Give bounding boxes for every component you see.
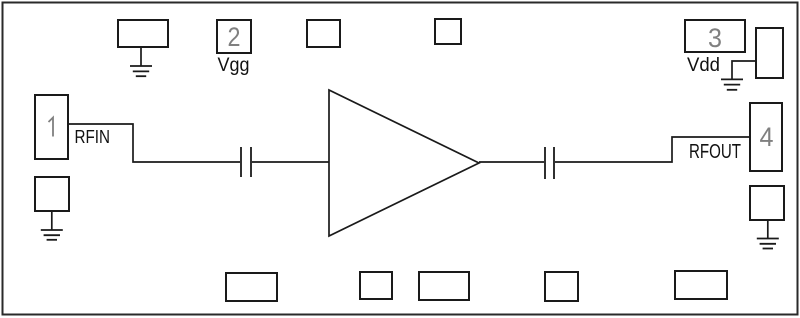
svg-text:Vgg: Vgg	[218, 55, 250, 76]
wire	[51, 211, 53, 230]
pad (bottom box 3)	[419, 272, 469, 300]
svg-text:2: 2	[228, 22, 241, 52]
wire	[767, 220, 769, 239]
pad (bottom box 2)	[360, 272, 392, 299]
pad (right grounded pad)	[750, 186, 784, 220]
pad (top-right grounded pad)	[756, 28, 783, 78]
pad (bottom box 4)	[545, 272, 578, 301]
op-amp U1 (amplifier triangle)	[329, 90, 479, 236]
pad (top box A)	[307, 20, 340, 47]
pad 4 (RFOUT pin)	[750, 103, 782, 171]
capacitor C1 (input blocking cap)	[241, 147, 251, 177]
svg-text:4: 4	[760, 122, 774, 152]
pad (top box B)	[435, 19, 461, 44]
ground	[41, 230, 63, 240]
pin number 1	[49, 118, 54, 137]
wire	[140, 47, 142, 66]
ground	[721, 79, 743, 89]
ground	[130, 66, 152, 76]
svg-text:Vdd: Vdd	[687, 55, 720, 76]
pad (bottom box 1)	[226, 273, 277, 301]
pad 1 (RFIN pin)	[35, 95, 68, 159]
ground	[757, 239, 779, 249]
capacitor C2 (output blocking cap)	[545, 147, 554, 179]
wire (input cap to amp)	[252, 161, 329, 163]
pad (left grounded pad)	[35, 177, 69, 211]
svg-text:3: 3	[708, 23, 722, 53]
svg-text:RFIN: RFIN	[75, 126, 111, 147]
wire (RFIN to input cap)	[68, 124, 240, 162]
pad (bottom box 5)	[675, 271, 727, 299]
svg-text:RFOUT: RFOUT	[689, 141, 741, 163]
wire (output cap to RFOUT)	[555, 137, 750, 162]
wire (amp to output cap)	[479, 161, 544, 163]
pad 3 (Vdd pin)	[685, 20, 745, 52]
pad 2 (Vgg pin)	[217, 20, 251, 53]
wire	[732, 61, 756, 79]
pad P5 (top-left grounded pad)	[118, 20, 168, 47]
